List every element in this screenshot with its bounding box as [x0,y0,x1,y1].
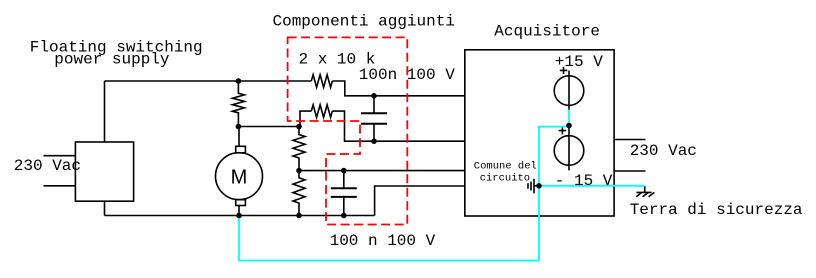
svg-text:230 Vac: 230 Vac [14,157,81,175]
resistor R1 (upper 10k, horizontal) [311,75,332,88]
junction comune ground [536,183,542,189]
voltage source V1 (+15 V) [568,71,570,110]
acquisitore box [465,50,614,216]
voltage source V2 (- 15 V) [554,136,584,166]
node C junction [296,168,302,174]
ground: comune del circuito (signal ground, pointing left) [528,179,539,193]
wire: capacitor C1 bottom lead [373,124,375,142]
resistor R3 (vertical, on node A) [232,81,244,127]
svg-text:230 Vac: 230 Vac [630,142,697,160]
boundary: componenti aggiunti dashed outline [288,37,408,224]
capacitor C2 (100 n 100 V) [331,188,357,197]
motor M brush terminal bottom [236,200,246,206]
wire: R2 left lead down to node B [300,111,311,126]
junction C1 bottom [371,138,377,144]
node A junction [236,78,242,84]
resistor R5 (lower of divider chain) [293,171,305,216]
svg-text:power supply: power supply [54,51,170,69]
wire: cyan common net motor-bottom to acquisitore midpoint [239,110,569,261]
node B junction left [236,124,242,130]
svg-text:100 n 100 V: 100 n 100 V [330,232,436,250]
wire: bottom bus [105,215,375,217]
svg-text:- 15 V: - 15 V [555,172,613,190]
polarity plus of V2 [559,127,567,135]
motor M body [216,153,263,200]
wire: left riser from top bus to power supply box [104,81,106,142]
wire: top bus from power supply to node A [105,80,312,82]
wire: R1 output down-step into acquisitore input 1 [332,81,465,96]
ground: terra di sicurezza (safety earth) [636,186,654,197]
junction C2 top [341,168,347,174]
wire: motor feed from node B [238,127,240,147]
polarity plus of V1 [560,67,568,74]
junction source midpoint [566,123,572,129]
wire: capacitor C2 bottom lead [343,197,345,216]
svg-text:Componenti aggiunti: Componenti aggiunti [273,13,455,31]
resistor R4 (upper of divider chain) [293,127,305,171]
wire: mains stub 2 (230 Vac left, lower) [44,185,76,187]
wire: power supply box to bottom bus [104,201,106,215]
svg-text:+15 V: +15 V [555,53,603,71]
svg-text:Comune del: Comune del [474,161,537,173]
capacitor C1 (100n 100 V) [361,113,387,124]
power supply box [75,142,133,201]
junction motor bottom [236,213,242,219]
motor M brush terminal top [236,146,246,153]
junction C2 bottom [341,213,347,219]
svg-text:Acquisitore: Acquisitore [494,23,600,41]
node B junction right [296,124,302,130]
wire: capacitor C2 top lead [343,171,345,189]
svg-text:100n 100 V: 100n 100 V [359,66,455,84]
wire: acquisitore mains stub lower [614,170,645,172]
resistor R2 (lower 10k, horizontal) [311,105,332,118]
wire: riser from bottom bus to acquisitore input 4 [375,186,465,216]
svg-text:M: M [231,166,248,188]
junction chain bottom [296,213,302,219]
wire: acquisitore mains stub upper (230 Vac right) [614,139,645,141]
wire: R2 output down-step into acquisitore input 2 [332,111,465,141]
wire: motor to bottom bus [238,206,240,216]
wire: cyan common net to safety earth [539,185,645,187]
wire: node B horizontal link [238,126,299,128]
svg-text:circuito: circuito [480,173,530,185]
svg-text:Terra di sicurezza: Terra di sicurezza [630,201,803,219]
junction C1 top [371,93,377,99]
wire: node C to acquisitore input 3 [299,170,465,172]
wire: capacitor C1 top lead [373,96,375,113]
wire: mains stub 1 (230 Vac left, upper) [44,155,76,157]
